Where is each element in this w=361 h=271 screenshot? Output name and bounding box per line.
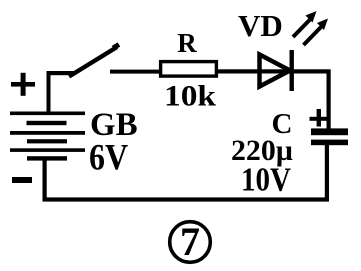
svg-text:6V: 6V	[89, 138, 128, 179]
svg-text:10k: 10k	[164, 80, 216, 113]
svg-text:10V: 10V	[241, 162, 291, 199]
svg-text:VD: VD	[238, 8, 283, 43]
svg-text:7: 7	[180, 219, 200, 264]
svg-text:R: R	[177, 28, 197, 58]
